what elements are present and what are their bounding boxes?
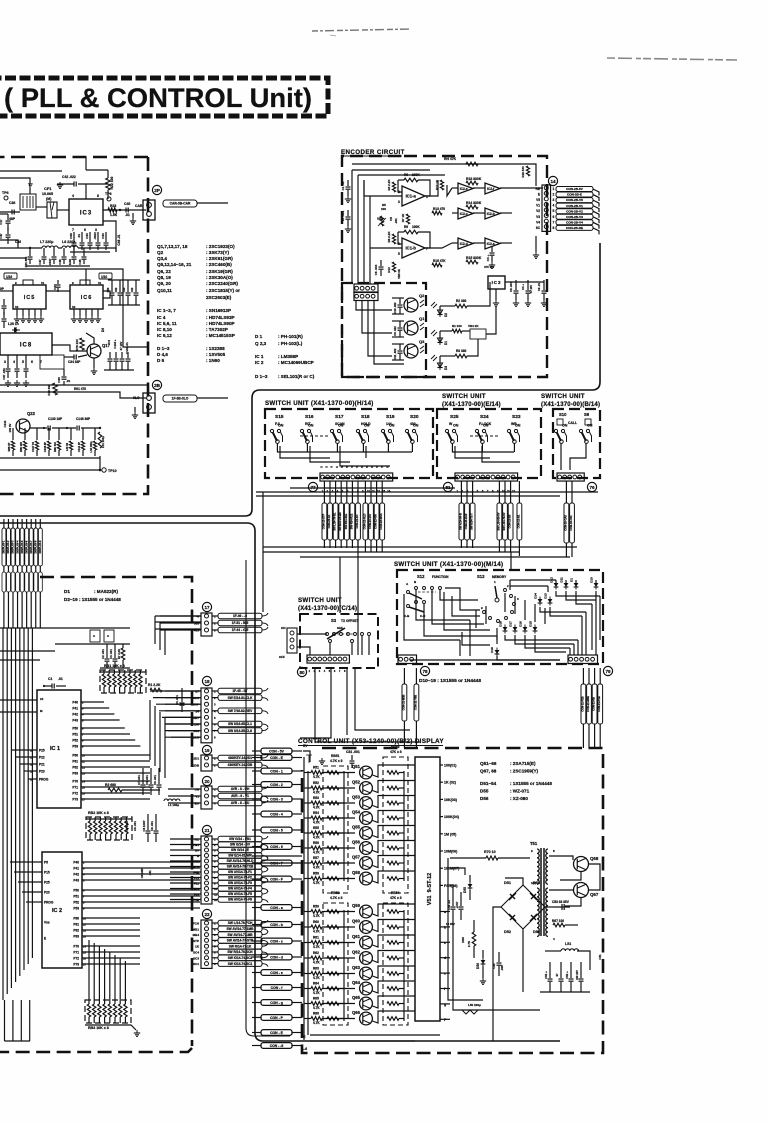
svg-text:( PLL & CONTROL Unit): ( PLL & CONTROL Unit) — [4, 83, 312, 113]
svg-text:.01: .01 — [66, 379, 71, 383]
strip 81 — [455, 473, 518, 481]
ribbon pills M/14 right — [580, 668, 602, 748]
CON pill column — [252, 748, 302, 1048]
svg-text:: 2SC1959(Y): : 2SC1959(Y) — [510, 769, 539, 774]
svg-text:L1 100µ: L1 100µ — [168, 803, 179, 807]
svg-text:D13: D13 — [544, 593, 548, 599]
transistor Q67 — [574, 883, 589, 898]
svg-text:IC6: IC6 — [81, 295, 93, 301]
svg-text:D6: D6 — [101, 328, 105, 332]
svg-text:P15: P15 — [44, 871, 50, 875]
svg-text:: WZ-071: : WZ-071 — [510, 789, 530, 794]
transistor Q52 — [360, 782, 373, 795]
DISPLAY ribbon pills — [2, 519, 42, 628]
svg-text:AVR - 8 - UH: AVR - 8 - UH — [231, 787, 250, 791]
svg-text:DISPLAY-9: DISPLAY-9 — [39, 540, 42, 553]
svg-text:D53: D53 — [533, 930, 540, 934]
svg-text:Q6, 22: Q6, 22 — [157, 269, 171, 274]
TP6 test point left — [4, 196, 8, 200]
bridge rectifier D51-D54 — [501, 885, 545, 929]
svg-text:S13: S13 — [477, 574, 485, 579]
wires from strips into inner box — [356, 300, 392, 310]
wire m14 bottom rail — [410, 659, 560, 661]
svg-text:TP6: TP6 — [2, 191, 9, 195]
svg-text:C6 .001: C6 .001 — [153, 775, 157, 785]
svg-text:Q62: Q62 — [352, 950, 361, 955]
svg-text:PROG: PROG — [44, 901, 54, 905]
svg-text:4.7K: 4.7K — [313, 976, 320, 980]
svg-text:R76 220: R76 220 — [75, 339, 79, 351]
svg-text:CON-21-HLD: CON-21-HLD — [362, 514, 366, 530]
svg-text:C4 .001: C4 .001 — [175, 695, 179, 705]
svg-text:1F-45 - ST: 1F-45 - ST — [232, 689, 247, 693]
photo transistor Q1 — [404, 321, 418, 335]
svg-text:CON-21-8B: CON-21-8B — [592, 697, 596, 711]
svg-text:P25: P25 — [44, 881, 50, 885]
svg-text:P52: P52 — [72, 739, 78, 743]
svg-text:4.7K: 4.7K — [313, 1006, 320, 1010]
svg-text:R57: R57 — [313, 856, 319, 860]
svg-text:2P: 2P — [154, 188, 160, 193]
connector 19 — [202, 745, 211, 754]
svg-text:C141 1P: C141 1P — [77, 442, 81, 452]
svg-text:P72: P72 — [73, 957, 79, 961]
svg-text:4.7K x 8: 4.7K x 8 — [330, 896, 343, 900]
svg-text:S19: S19 — [386, 414, 395, 420]
transistor Q64 — [360, 982, 373, 995]
svg-text:P80: P80 — [73, 917, 79, 921]
svg-text:R63: R63 — [313, 967, 319, 971]
svg-text:SW AV/14-77-STP: SW AV/14-77-STP — [227, 939, 254, 943]
svg-text:7: 7 — [553, 220, 555, 224]
svg-text:6: 6 — [31, 360, 33, 364]
IC8 box — [0, 333, 52, 355]
wire bus y385 — [0, 384, 148, 386]
svg-text:SW 8/14-85-CL8: SW 8/14-85-CL8 — [228, 729, 252, 733]
svg-text:IC2-b: IC2-b — [487, 212, 495, 216]
svg-text:ON: ON — [389, 424, 395, 428]
svg-text:: TA7302P: : TA7302P — [206, 327, 228, 332]
LED D2 — [437, 308, 442, 318]
svg-text:P50: P50 — [73, 889, 79, 893]
svg-text:1: 1 — [553, 187, 555, 191]
svg-text:CON - f: CON - f — [271, 986, 284, 990]
encoder block border — [342, 156, 547, 377]
svg-text:S3: S3 — [331, 618, 337, 623]
svg-text:R61: R61 — [313, 936, 319, 940]
encoder gnd mid — [535, 236, 537, 252]
svg-text:R8 2.2K: R8 2.2K — [387, 231, 391, 243]
svg-text:SW G/14 - FB1: SW G/14 - FB1 — [229, 837, 251, 841]
svg-text:79: 79 — [605, 669, 611, 674]
svg-text:CON - 6: CON - 6 — [270, 845, 283, 849]
TP6 test point right — [107, 197, 111, 201]
transistor Q60 — [360, 921, 373, 934]
wire drop x263 — [262, 492, 264, 612]
svg-text:: 1SV505: : 1SV505 — [206, 352, 226, 357]
RB51 network 4.7Kx8 — [323, 766, 348, 893]
svg-text:MEMORY: MEMORY — [492, 575, 507, 579]
svg-text:1000: 1000 — [68, 258, 72, 265]
svg-text:P53: P53 — [72, 745, 78, 749]
svg-text:P40: P40 — [72, 701, 78, 705]
svg-text:P83: P83 — [73, 935, 79, 939]
svg-text:CON-21-P1B: CON-21-P1B — [597, 696, 601, 712]
IC5 divider — [13, 285, 46, 309]
svg-text:L7 220µ: L7 220µ — [40, 240, 53, 244]
scan smudge top — [312, 29, 412, 31]
svg-text:R22 100: R22 100 — [110, 176, 114, 189]
svg-text:VR4 2K: VR4 2K — [468, 324, 479, 328]
svg-text:T7: T7 — [28, 182, 33, 187]
svg-text:IC3: IC3 — [492, 280, 502, 285]
svg-text:P63: P63 — [72, 772, 78, 776]
svg-text:11: 11 — [98, 281, 102, 285]
svg-text:SW L/14-75-BL: SW L/14-75-BL — [333, 512, 337, 531]
svg-text:: SN16913P: : SN16913P — [206, 308, 231, 313]
svg-text:AVR - 8 - V1: AVR - 8 - V1 — [231, 794, 249, 798]
svg-text:DISPLAY-7: DISPLAY-7 — [30, 540, 33, 553]
op-amp IC1-a — [402, 186, 425, 206]
transistor Q17 — [87, 344, 101, 358]
svg-text:C38: C38 — [9, 201, 15, 205]
svg-text:Q52: Q52 — [352, 780, 361, 785]
svg-text:CON-2B-V2: CON-2B-V2 — [566, 209, 583, 213]
encoder top rail wire — [352, 164, 536, 186]
svg-text:ON: ON — [281, 626, 286, 630]
svg-text:R15 330K: R15 330K — [466, 256, 482, 260]
svg-text:R12: R12 — [387, 267, 391, 273]
svg-text:: 2SC460(B): : 2SC460(B) — [206, 262, 232, 267]
encoder inner mechanical box — [342, 283, 426, 377]
transistor Q57 — [360, 857, 373, 870]
IC1 right wires — [81, 702, 140, 746]
svg-text:5: 5 — [398, 252, 400, 256]
svg-text:Q64: Q64 — [352, 980, 361, 985]
svg-text:4.7K: 4.7K — [313, 991, 320, 995]
svg-text:C9 .001: C9 .001 — [133, 821, 137, 831]
svg-text:S25: S25 — [450, 414, 459, 420]
svg-text:1F-44 - 475: 1F-44 - 475 — [232, 628, 249, 632]
C/14 wires — [297, 633, 327, 635]
svg-text:21: 21 — [204, 828, 210, 833]
svg-text:C7 .001: C7 .001 — [137, 775, 141, 785]
wire exit b — [252, 862, 302, 864]
ribbon 1F-3B-3LO — [163, 395, 197, 402]
svg-text:3LO: 3LO — [133, 396, 140, 400]
svg-text:C39: C39 — [69, 233, 73, 239]
parts list encoder — [255, 334, 315, 379]
svg-text:S20: S20 — [410, 414, 419, 420]
RB54 network 47Kx8 — [383, 903, 408, 1025]
RB52 network 4.7Kx8 — [323, 903, 348, 1025]
bus wire B (left to control bottom) — [0, 523, 560, 1041]
svg-text:430/KEY-14-2D1: 430/KEY-14-2D1 — [228, 756, 252, 760]
connector 2P CAR — [143, 200, 155, 220]
M/14 wires — [445, 588, 480, 610]
svg-text:CON - d: CON - d — [270, 955, 283, 959]
svg-text:SWITCH UNIT (X41-1370-00)(M/14: SWITCH UNIT (X41-1370-00)(M/14) — [394, 561, 503, 568]
svg-text:IC2-e: IC2-e — [460, 187, 468, 191]
svg-text:IC 1~3, 7: IC 1~3, 7 — [157, 308, 176, 313]
svg-text:D1: D1 — [64, 589, 70, 594]
svg-text:: HD74LS93P: : HD74LS93P — [206, 315, 235, 320]
svg-text:: 3SK73(Y): : 3SK73(Y) — [206, 250, 229, 255]
svg-text:CON - E: CON - E — [270, 756, 284, 760]
svg-text:P52: P52 — [73, 901, 79, 905]
op-amp IC1-b — [402, 238, 425, 258]
svg-text:C3 .001: C3 .001 — [109, 649, 113, 659]
svg-text:P70: P70 — [72, 780, 78, 784]
svg-text:CON-22-430: CON-22-430 — [374, 514, 378, 529]
switch unit B/14 border — [553, 409, 600, 478]
svg-text:P50: P50 — [72, 727, 78, 731]
wire v51 feed b — [453, 920, 540, 1010]
svg-text:D51: D51 — [504, 881, 511, 885]
svg-text:CON-21-B5: CON-21-B5 — [508, 514, 512, 528]
svg-text:IC1-b: IC1-b — [406, 246, 417, 251]
svg-text:C53: C53 — [122, 287, 126, 292]
svg-text:CON - 3: CON - 3 — [270, 797, 283, 801]
transistor Q58 — [360, 872, 373, 885]
svg-text:: 1N60: : 1N60 — [206, 358, 220, 363]
encoder left input wires — [352, 169, 430, 171]
svg-text:SW AV/14-78-F1: SW AV/14-78-F1 — [228, 870, 252, 874]
svg-text:ON: ON — [364, 424, 370, 428]
svg-text:C6 .004: C6 .004 — [374, 264, 378, 275]
op IC3 PLL — [69, 199, 103, 225]
svg-text:CON-21-B1: CON-21-B1 — [516, 514, 520, 528]
cpu extra h wires — [0, 650, 55, 652]
svg-text:(M): (M) — [46, 197, 52, 201]
switch unit E/14 border — [437, 409, 541, 478]
wire bus y557 — [300, 556, 570, 558]
connector 18 — [202, 676, 211, 685]
svg-text:SW G/14 - SV: SW G/14 - SV — [230, 843, 251, 847]
transistor Q51 — [360, 766, 373, 779]
svg-text:CON-18-C51: CON-18-C51 — [569, 515, 573, 531]
svg-text:SW AV/14-79-HLD: SW AV/14-79-HLD — [227, 859, 254, 863]
svg-text:CON - 5V: CON - 5V — [269, 749, 284, 753]
svg-text:SW NAV-23-BN: SW NAV-23-BN — [338, 512, 342, 531]
svg-text:R3 330: R3 330 — [456, 349, 467, 353]
svg-text:100(01): 100(01) — [444, 764, 457, 768]
svg-text:R62: R62 — [313, 951, 319, 955]
svg-text:D14: D14 — [534, 593, 538, 599]
svg-text:IC 2: IC 2 — [255, 360, 264, 365]
svg-text:TX OFFSET: TX OFFSET — [341, 619, 359, 623]
svg-text:1F-46 - -6: 1F-46 - -6 — [233, 614, 247, 618]
svg-text:D10: D10 — [590, 577, 594, 583]
svg-text:DISPLAY-1: DISPLAY-1 — [3, 540, 6, 553]
ribbon group CON-2B — [556, 187, 599, 235]
connector 20 — [202, 776, 211, 785]
svg-text:: 2SK30A(O): : 2SK30A(O) — [206, 275, 233, 280]
wire C14 a — [315, 668, 420, 742]
IC6 divider — [70, 285, 103, 309]
svg-text:R58: R58 — [313, 872, 319, 876]
svg-text:D2~19 : 1S1555 or 1N4448: D2~19 : 1S1555 or 1N4448 — [64, 597, 121, 602]
wire IC3 out to CAR connector — [103, 209, 146, 211]
svg-text:P20: P20 — [44, 891, 50, 895]
switch unit C/14 border — [300, 614, 378, 668]
svg-text:R53: R53 — [313, 796, 319, 800]
C/14 left 3-pin connector — [287, 628, 297, 653]
svg-text:RB53: RB53 — [391, 745, 400, 749]
svg-text:P21: P21 — [39, 763, 45, 767]
svg-text:Q51~66: Q51~66 — [480, 761, 497, 766]
svg-text:.01: .01 — [58, 677, 63, 681]
parts list Q/IC/D — [157, 244, 240, 363]
svg-text:RB1 10K x 8: RB1 10K x 8 — [104, 664, 125, 668]
buffer IC2-e — [458, 183, 473, 194]
svg-text:Q65: Q65 — [352, 995, 361, 1000]
svg-text:: 2SC1815(Y) or: : 2SC1815(Y) or — [206, 288, 240, 293]
buffer IC2-c — [458, 208, 473, 219]
svg-text:R52: R52 — [313, 781, 319, 785]
svg-text:P73: P73 — [72, 798, 78, 802]
buffer IC2-f — [485, 183, 500, 194]
strip 76 — [557, 473, 584, 481]
svg-text:V1: V1 — [536, 204, 540, 208]
svg-text:4.7K: 4.7K — [313, 945, 320, 949]
svg-text:: SEL101(R or C): : SEL101(R or C) — [278, 374, 315, 379]
svg-text:C138 8P: C138 8P — [43, 442, 47, 452]
svg-text:P73: P73 — [73, 963, 79, 967]
svg-text:CON - 1: CON - 1 — [270, 769, 283, 773]
connector 22 — [202, 909, 211, 918]
strip 78 — [398, 655, 417, 664]
svg-text:.001: .001 — [394, 218, 398, 224]
photo transistor Q3 — [404, 344, 418, 358]
svg-text:SW 8/16-85-CL1: SW 8/16-85-CL1 — [228, 722, 252, 726]
svg-text:76: 76 — [589, 485, 595, 490]
svg-text:C51 +: C51 + — [544, 971, 548, 979]
svg-text:.0047: .0047 — [48, 258, 52, 265]
svg-text:47 10V: 47 10V — [529, 285, 533, 293]
wire bus y552 — [263, 551, 519, 553]
wire cpu top rail — [0, 627, 130, 629]
svg-text:Q58: Q58 — [352, 870, 361, 875]
svg-text:R4 2.2K: R4 2.2K — [387, 179, 391, 191]
svg-text:R18 330K: R18 330K — [466, 177, 482, 181]
svg-text:DISPLAY-8: DISPLAY-8 — [34, 540, 37, 553]
svg-text:R14 330K: R14 330K — [466, 201, 482, 205]
svg-text:S10: S10 — [559, 412, 567, 417]
pll left col y300 caps — [3, 299, 5, 305]
svg-text:P51: P51 — [73, 895, 79, 899]
svg-text:6: 6 — [84, 228, 86, 232]
IC2 left pin wires — [10, 862, 42, 902]
buffer IC2-d — [458, 238, 473, 249]
svg-text:SW 8/14-81E: SW 8/14-81E — [344, 514, 348, 530]
svg-text:CON - e: CON - e — [270, 971, 283, 975]
svg-text:2: 2 — [553, 193, 555, 197]
svg-text:.001: .001 — [148, 870, 152, 876]
svg-text:P62: P62 — [72, 766, 78, 770]
svg-text:8: 8 — [97, 194, 99, 198]
svg-text:R88 1P: R88 1P — [7, 442, 11, 451]
svg-text:CON-23-144: CON-23-144 — [368, 514, 372, 529]
svg-text:ON: ON — [308, 424, 314, 428]
svg-text:RB51: RB51 — [331, 754, 340, 758]
svg-text:C4 +: C4 + — [521, 284, 525, 290]
svg-text:SW L/14-79-5V: SW L/14-79-5V — [502, 512, 506, 530]
svg-text:CON-2B-RE: CON-2B-RE — [566, 226, 583, 230]
svg-text:78: 78 — [422, 669, 428, 674]
svg-text:CON-21-M3B: CON-21-M3B — [401, 694, 405, 710]
wires control right block — [450, 868, 465, 875]
svg-text:C52 +: C52 + — [565, 971, 569, 979]
svg-text:CON-2B-5V: CON-2B-5V — [566, 187, 584, 191]
svg-text:C2 .001: C2 .001 — [101, 649, 105, 659]
svg-text:Q3,4: Q3,4 — [157, 256, 167, 261]
svg-text:SWITCH UNIT: SWITCH UNIT — [298, 597, 342, 604]
svg-text:D56: D56 — [476, 963, 480, 969]
svg-text:4.7K: 4.7K — [313, 866, 320, 870]
svg-text:V4: V4 — [536, 220, 540, 224]
svg-text:C144: C144 — [3, 420, 7, 427]
svg-text:C7 .001: C7 .001 — [341, 210, 345, 221]
svg-text:C17: C17 — [0, 219, 3, 225]
svg-text:CON - 2: CON - 2 — [270, 783, 283, 787]
wire TP10 rail — [0, 469, 100, 471]
svg-text:R2 680: R2 680 — [105, 783, 116, 787]
svg-text:SW AV/14-77-MB: SW AV/14-77-MB — [227, 933, 253, 937]
svg-text:C11 .022: C11 .022 — [393, 348, 397, 359]
svg-text:RB3 10K x 8: RB3 10K x 8 — [88, 1026, 109, 1030]
svg-text:Q5,12,14~16, 21: Q5,12,14~16, 21 — [157, 262, 192, 267]
svg-text:CAR: CAR — [135, 204, 143, 208]
svg-text:C81 .001: C81 .001 — [346, 750, 360, 754]
svg-text:Q2: Q2 — [419, 293, 425, 298]
bus wire D control feed — [246, 560, 290, 1036]
svg-text:V51 9-ST-12: V51 9-ST-12 — [427, 873, 433, 905]
svg-text:CF1: CF1 — [44, 186, 52, 191]
svg-text:C51: C51 — [598, 954, 602, 960]
svg-text:C37 .033: C37 .033 — [2, 368, 6, 380]
svg-text:SWITCH UNIT: SWITCH UNIT — [541, 393, 585, 400]
svg-text:D54: D54 — [533, 881, 541, 885]
svg-text:SW AV/14-79-TXB: SW AV/14-79-TXB — [227, 865, 254, 869]
ribbon pills H/14 group2 — [362, 481, 384, 552]
svg-text:2SC2603(E): 2SC2603(E) — [206, 295, 232, 300]
wires cpu-to-connectors — [160, 616, 201, 900]
svg-text:PROG: PROG — [39, 778, 49, 782]
svg-text:1F-3B-3LO: 1F-3B-3LO — [172, 397, 189, 401]
svg-text:C3 .001: C3 .001 — [145, 775, 149, 785]
svg-text:D18: D18 — [499, 621, 503, 627]
wire drop x511 — [510, 552, 512, 570]
svg-text:IC1-a: IC1-a — [406, 194, 417, 199]
wires IC2 col down to RB3 — [89, 940, 125, 996]
svg-text:8C: 8C — [536, 226, 541, 230]
svg-text:AVR - 8 - BU: AVR - 8 - BU — [231, 801, 250, 805]
svg-text:SW E/14-81-CLK: SW E/14-81-CLK — [228, 696, 253, 700]
transistor Q55 — [360, 827, 373, 840]
svg-text:4: 4 — [13, 360, 15, 364]
svg-text:D52: D52 — [504, 930, 511, 934]
svg-text:10K(03): 10K(03) — [444, 798, 458, 802]
svg-text:D 1~3: D 1~3 — [157, 346, 170, 351]
svg-text:L8 220µ: L8 220µ — [62, 240, 75, 244]
svg-text:D10~19 : 1S1555 or 1N4448: D10~19 : 1S1555 or 1N4448 — [419, 678, 481, 684]
svg-text:10.065: 10.065 — [42, 192, 53, 196]
tag 1/10 — [99, 273, 112, 279]
svg-text:ON: ON — [483, 424, 489, 428]
svg-text:CON-22-SC: CON-22-SC — [355, 514, 359, 528]
svg-text:IC2-a: IC2-a — [487, 242, 495, 246]
